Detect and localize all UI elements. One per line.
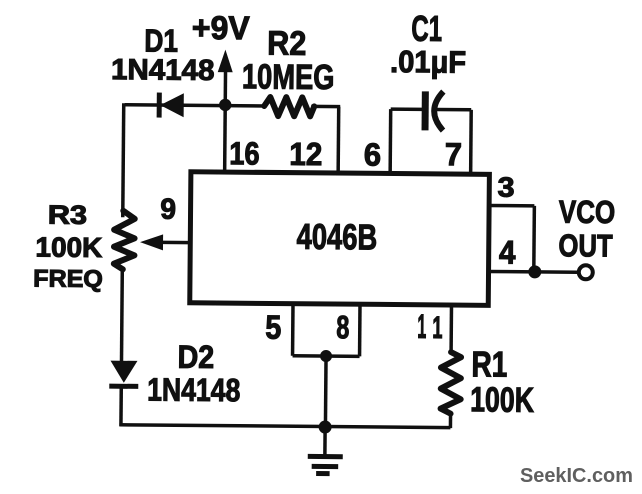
svg-text:100K: 100K (35, 232, 102, 264)
svg-text:R3: R3 (48, 201, 88, 231)
svg-text:4: 4 (499, 234, 516, 271)
svg-text:12: 12 (289, 136, 322, 173)
svg-text:1: 1 (417, 307, 426, 345)
svg-text:6: 6 (364, 136, 382, 173)
svg-text:3: 3 (497, 173, 514, 204)
svg-text:FREQ: FREQ (33, 266, 103, 293)
svg-text:5: 5 (265, 309, 281, 347)
svg-text:1N4148: 1N4148 (111, 53, 215, 87)
svg-text:D2: D2 (177, 339, 214, 375)
svg-text:R1: R1 (471, 344, 507, 384)
svg-text:C1: C1 (411, 8, 442, 50)
svg-text:9: 9 (160, 193, 176, 226)
svg-text:4046B: 4046B (296, 216, 377, 257)
svg-text:SeekIC.com: SeekIC.com (520, 465, 633, 487)
svg-text:OUT: OUT (558, 229, 613, 264)
svg-text:+9V: +9V (192, 9, 250, 46)
svg-text:VCO: VCO (559, 195, 616, 231)
svg-text:1: 1 (432, 311, 442, 345)
svg-text:10MEG: 10MEG (242, 57, 335, 97)
svg-text:1N4148: 1N4148 (147, 372, 240, 409)
svg-text:.01μF: .01μF (390, 45, 466, 80)
svg-text:100K: 100K (470, 380, 535, 420)
svg-text:8: 8 (336, 308, 349, 345)
svg-text:7: 7 (445, 137, 462, 173)
svg-text:16: 16 (229, 136, 260, 172)
